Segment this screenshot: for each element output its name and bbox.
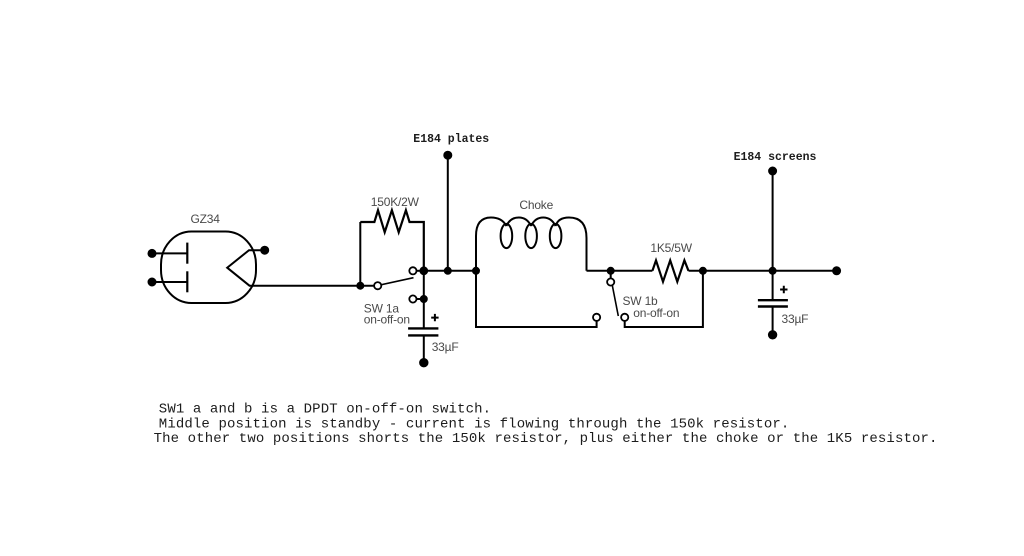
inductor L1 petal loop 2 — [525, 224, 537, 248]
node junction dot 1K5 bypass right — [700, 268, 706, 274]
node main bus right terminal dot — [833, 267, 840, 274]
inductor L1 hump 4 and right leg — [556, 218, 587, 271]
resistor R2 1K5/5W zigzag inline — [652, 260, 688, 281]
GZ34 left top terminal dot — [149, 250, 156, 257]
node dot SW1a lower throw — [421, 296, 427, 302]
capacitor C2 top plate — [758, 299, 788, 301]
wire main bus 1K5 right to end — [689, 270, 837, 272]
capacitor C2 bottom terminal dot — [769, 331, 776, 338]
svg-text:SW1 a and b is a DPDT on-off-o: SW1 a and b is a DPDT on-off-on switch. — [159, 402, 491, 418]
svg-text:150K/2W: 150K/2W — [371, 195, 420, 209]
wire E184 screens vertical — [772, 171, 774, 271]
node junction dot E184 plates on bus — [445, 268, 451, 274]
capacitor C1 top plate — [408, 327, 438, 329]
inductor L1 choke winding — [476, 218, 506, 271]
capacitor C1 bottom plate — [408, 334, 438, 336]
inductor L1 petal loop 1 — [501, 224, 513, 248]
GZ34 left bottom lead wire — [152, 281, 187, 283]
inductor L1 petal loop 3 — [550, 224, 562, 248]
svg-text:E184 screens: E184 screens — [734, 151, 817, 164]
tube GZ34 envelope — [161, 232, 256, 304]
inductor L1 hump 2 — [506, 218, 531, 227]
wire main bus choke right to 1K5 — [587, 270, 653, 272]
capacitor C2 bottom plate — [758, 305, 788, 307]
capacitor C2 plus polarity mark — [780, 286, 787, 293]
switch SW1b common pole circle — [607, 278, 614, 285]
switch SW1b lever — [612, 285, 618, 316]
GZ34 anode chevron and output wire to SW1a — [227, 250, 374, 286]
capacitor C1 plus polarity mark — [431, 314, 438, 321]
node junction dot choke left — [473, 268, 479, 274]
svg-text:33µF: 33µF — [782, 312, 809, 326]
node junction dot B+ after switch — [420, 267, 427, 274]
svg-text:E184 plates: E184 plates — [413, 133, 489, 146]
svg-text:The other two positions shorts: The other two positions shorts the 150k … — [154, 431, 938, 447]
wire capacitor C1 top lead — [423, 271, 425, 328]
wire SW1b common stub — [610, 271, 612, 279]
svg-text:on-off-on: on-off-on — [364, 313, 410, 327]
GZ34 anode top terminal dot — [261, 247, 268, 254]
wire capacitor C2 top lead — [772, 271, 774, 300]
wire SW1a upper throw to node — [417, 270, 424, 272]
GZ34 cathode bar top — [186, 243, 188, 264]
node junction dot at resistor R1 left leg — [357, 283, 363, 289]
wire capacitor C2 bottom lead — [772, 308, 774, 335]
wire E184 plates vertical — [447, 155, 449, 271]
GZ34 left bottom terminal dot — [149, 279, 156, 286]
switch SW1a common pole circle — [374, 282, 381, 289]
wire SW1a lower throw to cap wire — [417, 298, 424, 300]
switch SW1a lever — [382, 278, 414, 285]
node junction dot SW1b common on bus — [608, 268, 614, 274]
switch SW1a lower throw circle — [409, 295, 416, 302]
svg-text:Choke: Choke — [519, 198, 553, 212]
node E184 plates terminal dot — [444, 152, 451, 159]
switch SW1b right throw circle — [621, 314, 628, 321]
wire main bus from switch node to choke — [424, 270, 476, 272]
wire choke bypass loop (left throw of SW1b) — [476, 271, 597, 327]
wire resistor R1 left vertical — [359, 222, 361, 286]
GZ34 cathode bar bottom — [186, 271, 188, 292]
capacitor C1 bottom terminal dot — [420, 359, 427, 366]
switch SW1a upper throw circle — [409, 267, 416, 274]
resistor R1 150K/2W zigzag — [360, 210, 424, 270]
node junction dot E184 screens on bus — [770, 268, 776, 274]
svg-text:on-off-on: on-off-on — [633, 306, 679, 320]
node E184 screens terminal dot — [769, 168, 776, 175]
svg-text:1K5/5W: 1K5/5W — [650, 241, 692, 255]
GZ34 left top lead wire — [152, 252, 187, 254]
svg-text:GZ34: GZ34 — [191, 212, 221, 226]
switch SW1b left throw circle — [593, 314, 600, 321]
svg-text:33µF: 33µF — [432, 340, 459, 354]
inductor L1 hump 3 — [531, 218, 556, 227]
wire 1K5 bypass loop (right throw of SW1b) — [625, 271, 703, 327]
wire capacitor C1 bottom lead — [423, 336, 425, 362]
